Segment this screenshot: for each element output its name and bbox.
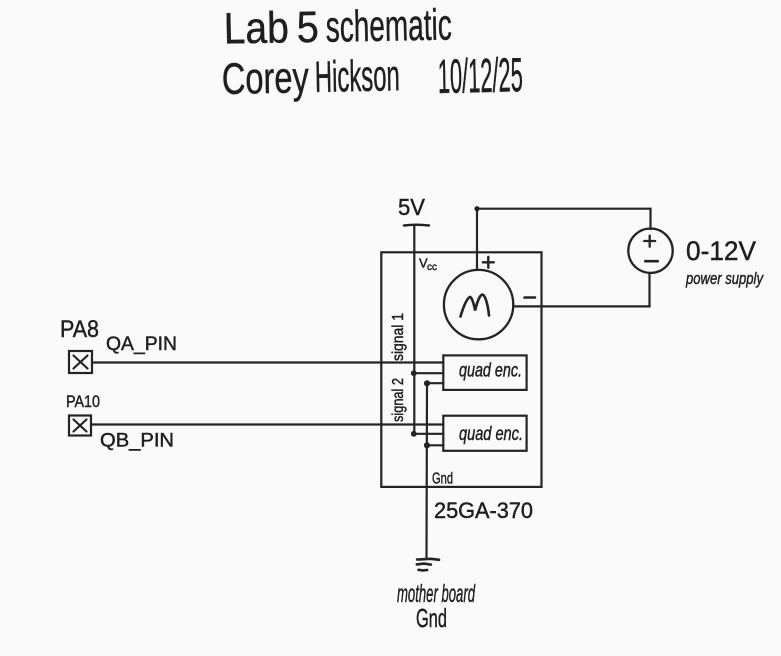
svg-text:Hickson: Hickson (314, 51, 400, 102)
svg-text:25GA-370: 25GA-370 (434, 498, 533, 523)
wire ENC2 Vcc pin to 5V rail (414, 433, 443, 435)
svg-text:signal 2: signal 2 (390, 378, 407, 422)
motor - terminal label (525, 296, 536, 299)
svg-text:10/12/25: 10/12/25 (437, 49, 523, 104)
pin terminal PA10 (x-box) (69, 416, 91, 436)
5V net label (398, 194, 426, 220)
svg-text:QB_PIN: QB_PIN (100, 431, 174, 452)
svg-text:Gnd: Gnd (432, 471, 453, 488)
svg-text:power supply: power supply (685, 269, 764, 288)
wire supply - terminal to motor - terminal (514, 273, 650, 306)
svg-text:0-12V: 0-12V (686, 236, 756, 266)
signal 1 net label (rotated) (390, 313, 407, 361)
junction ENC1 Vcc (411, 370, 417, 376)
svg-text:schematic: schematic (325, 1, 452, 52)
PA8 pin name label (60, 316, 99, 343)
PA10 pin name label (66, 392, 100, 411)
junction ENC1 Gnd (424, 380, 430, 386)
quadrature encoder ENC1 (443, 355, 526, 390)
wire QA_PIN to encoder 1 pin A (92, 361, 443, 363)
supply + terminal label (644, 236, 655, 247)
QA_PIN net label (106, 334, 177, 355)
5V power rail symbol (404, 224, 429, 227)
title text (223, 1, 452, 54)
power supply PS1 (0-12V) (628, 229, 672, 273)
author and date text (221, 49, 523, 109)
Vcc pin label (419, 256, 437, 274)
svg-text:5V: 5V (398, 194, 426, 220)
junction ENC2 Vcc (411, 431, 417, 437)
part number label 25GA-370 (434, 498, 533, 523)
svg-text:quad enc.: quad enc. (459, 424, 523, 445)
wire 5V rail to encoder Vcc pins (vertical) (413, 226, 415, 434)
ground symbol (motherboard gnd) (417, 559, 439, 571)
svg-text:PA10: PA10 (66, 392, 100, 411)
svg-text:Gnd: Gnd (416, 603, 447, 633)
signal 2 net label (rotated) (390, 378, 407, 422)
wire ENC2 Gnd pin (427, 444, 443, 446)
pin terminal PA8 (x-box) (69, 351, 92, 373)
wire Gnd bus (vertical to ground) (425, 383, 428, 558)
motor M1 (444, 270, 513, 339)
supply - terminal label (645, 260, 657, 263)
svg-text:cc: cc (427, 262, 437, 273)
quadrature encoder ENC2 (443, 416, 526, 451)
svg-text:quad enc.: quad enc. (459, 361, 522, 382)
svg-text:signal 1: signal 1 (390, 313, 407, 361)
motor + terminal label (483, 257, 494, 268)
svg-text:QA_PIN: QA_PIN (106, 334, 177, 355)
mother board Gnd label (397, 580, 476, 633)
wire ENC1 Vcc pin to 5V rail (414, 372, 443, 374)
junction at top wire corner (474, 206, 479, 211)
svg-text:Corey: Corey (221, 53, 309, 104)
junction ENC2 Gnd (424, 442, 430, 448)
svg-text:PA8: PA8 (60, 316, 99, 343)
svg-text:5: 5 (296, 3, 319, 52)
supply value label 0-12V (686, 236, 756, 266)
gearmotor module outline box (25GA-370) (381, 252, 541, 487)
svg-text:Lab: Lab (223, 3, 289, 53)
supply name label (685, 269, 764, 288)
wire QB_PIN to encoder 2 pin A (91, 423, 443, 425)
Gnd pin label (432, 471, 453, 488)
QB_PIN net label (100, 431, 174, 452)
wire ENC1 Gnd pin (427, 382, 443, 384)
wire motor + terminal to supply + (up and over) (477, 209, 651, 270)
